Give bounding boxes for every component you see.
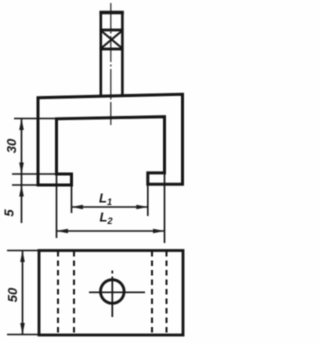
svg-text:30: 30: [4, 138, 19, 153]
svg-text:50: 50: [5, 287, 20, 302]
svg-text:5: 5: [2, 209, 17, 217]
